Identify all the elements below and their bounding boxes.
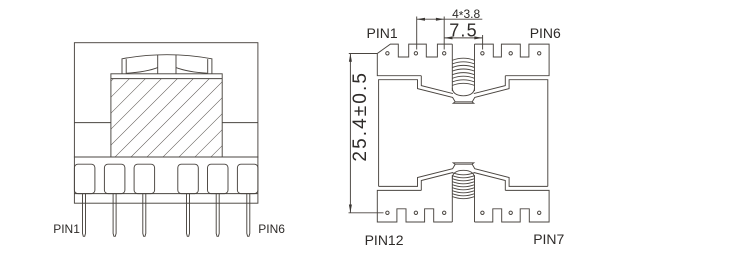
coil top turns — [452, 58, 474, 85]
arrow 4*3.8 left — [417, 18, 425, 21]
coil top end cap — [452, 88, 474, 96]
pin hole bottom 3 — [443, 211, 446, 214]
top flange outline with notches and chamfer — [377, 44, 549, 76]
dimension 7.5 extension — [482, 35, 484, 50]
arrow 7.5 left — [444, 36, 452, 39]
dimension 4*3.8 extension b — [443, 17, 445, 50]
pin tower 4 — [178, 164, 199, 193]
top inner contour — [379, 80, 548, 187]
svg-text:PIN6: PIN6 — [530, 25, 561, 41]
bottom outer step right — [474, 173, 506, 191]
coil bottom end cap — [452, 170, 474, 178]
dimension 25.4 bottom extension — [349, 212, 384, 214]
arrow 25.4 down — [349, 205, 352, 213]
pin tower 2 — [104, 164, 125, 193]
top outer step right — [474, 76, 506, 94]
clip center post right — [175, 55, 177, 74]
svg-text:25.4±0.5: 25.4±0.5 — [350, 71, 371, 162]
svg-text:PIN12: PIN12 — [365, 232, 404, 248]
svg-text:PIN1: PIN1 — [367, 25, 398, 41]
pin hole top 5 — [509, 52, 512, 55]
dimension 25.4 line — [349, 54, 351, 213]
pin tower 6 — [237, 164, 258, 193]
arrow 25.4 up — [349, 54, 352, 62]
dimension 4*3.8 extension a — [416, 17, 418, 50]
pin 2 (left view) — [113, 194, 116, 237]
pin 6 (left view) — [247, 194, 250, 237]
pin hole bottom 6 — [538, 211, 541, 214]
bottom outer step left — [421, 173, 453, 191]
bottom flange outline with notches — [377, 190, 549, 222]
hatch fill — [111, 79, 222, 157]
top clip outline — [122, 55, 212, 74]
pin hole top 6 — [538, 52, 541, 55]
pin 5 (left view) — [216, 194, 219, 237]
arrow 4*3.8 right — [436, 18, 444, 21]
bobbin flange strip line — [111, 78, 222, 80]
pin tower 1 — [74, 164, 95, 193]
coil bottom: right side — [474, 175, 476, 222]
svg-text:PIN6: PIN6 — [258, 222, 285, 236]
pin 4 (left view) — [187, 194, 190, 237]
bottom dish lower line — [453, 163, 474, 164]
top dish lower line — [453, 102, 474, 103]
coil top: right side — [474, 44, 476, 91]
dimension 4*3.8 line — [417, 18, 483, 20]
arrow 7.5 right — [474, 36, 482, 39]
pin 1 (left view) — [83, 194, 86, 237]
pin tower 3 — [134, 164, 155, 193]
pin hole top 3 — [443, 52, 446, 55]
core outline — [74, 43, 258, 157]
base band lower line — [74, 193, 258, 195]
clip center post left — [157, 55, 159, 74]
coil bottom turns — [452, 173, 474, 199]
pin 3 (left view) — [143, 194, 146, 237]
clip inner left edge — [125, 59, 127, 74]
svg-text:PIN7: PIN7 — [533, 231, 564, 247]
pin hole bottom 5 — [509, 211, 512, 214]
pin hole bottom 2 — [414, 211, 417, 214]
pin hole top 4 — [481, 52, 484, 55]
coil bottom: left side — [451, 175, 453, 222]
clip spring arm left — [127, 68, 158, 74]
pin hole bottom 4 — [481, 211, 484, 214]
svg-text:PIN1: PIN1 — [53, 222, 80, 236]
core mating line right — [222, 122, 258, 124]
dimension 25.4 top extension — [349, 53, 377, 55]
svg-text:7.5: 7.5 — [449, 20, 478, 40]
bottom inner contour — [379, 164, 548, 186]
pin hole top 2 — [414, 52, 417, 55]
top outer step left — [421, 76, 453, 94]
coil top: left side — [451, 44, 453, 91]
pin tower 5 — [208, 164, 229, 193]
pin hole top 1 — [386, 52, 389, 55]
clip spring arm right — [176, 68, 207, 74]
dimension 7.5 line — [444, 37, 482, 39]
clip inner right edge — [207, 59, 209, 74]
pin hole bottom 1 — [386, 211, 389, 214]
bobbin base band — [74, 157, 258, 203]
core mating line left — [74, 122, 111, 124]
winding hatched area — [111, 74, 222, 157]
